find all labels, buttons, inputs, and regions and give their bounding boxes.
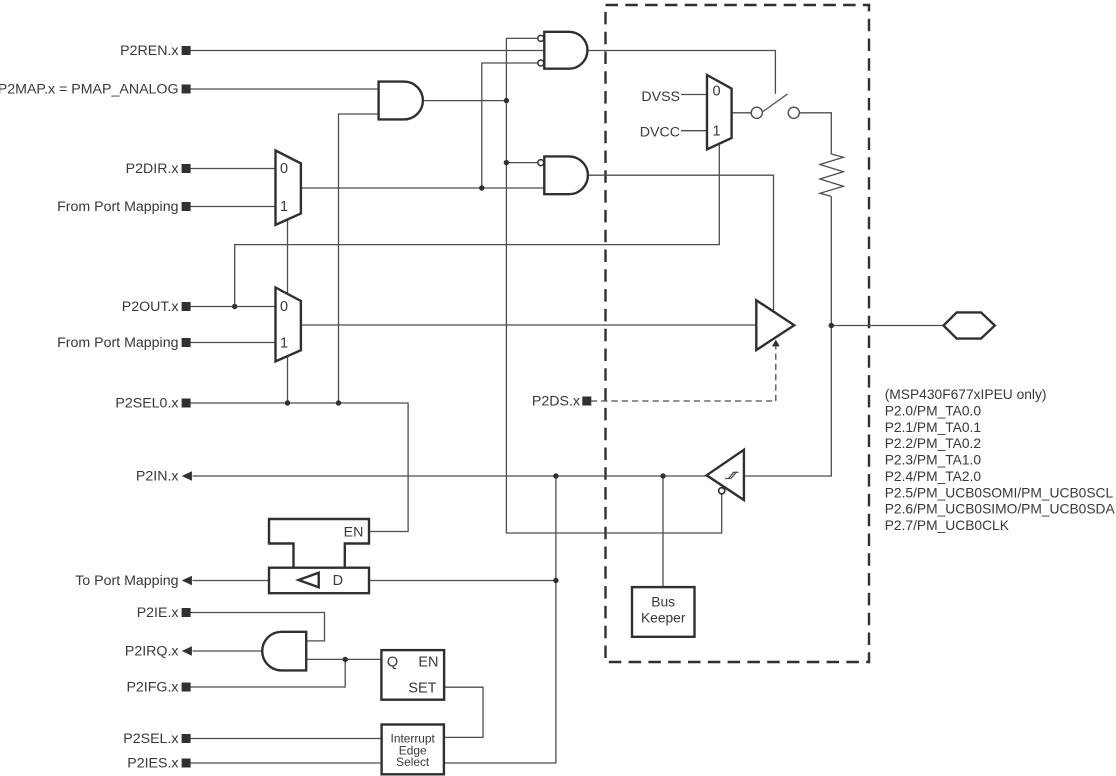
arrow To Port Mapping	[182, 576, 192, 586]
arrowhead P2DS drive strength	[772, 340, 780, 347]
svg-text:P2.4/PM_TA2.0: P2.4/PM_TA2.0	[885, 469, 982, 484]
latch EN yoke	[269, 519, 369, 568]
terminal square P2SEL.x	[182, 734, 191, 743]
Interrupt Edge Select box	[382, 725, 444, 775]
switch contact circle left	[751, 107, 762, 118]
terminal square P2DS.x	[582, 397, 591, 406]
wire pad node to pad hexagon	[831, 325, 944, 327]
wire NAND2 output to output driver enable	[588, 175, 773, 311]
wire P2SEL0 vertical branch to AND U1 bottom input	[339, 114, 378, 403]
svg-text:P2.3/PM_TA1.0: P2.3/PM_TA1.0	[885, 453, 982, 468]
svg-text:DVSS: DVSS	[641, 89, 680, 105]
svg-text:1: 1	[280, 199, 288, 215]
mux M1 (P2DIR / From Port Mapping)	[276, 151, 301, 225]
mux M3 (DVSS / DVCC)	[707, 75, 732, 149]
svg-text:P2IE.x: P2IE.x	[137, 605, 179, 621]
bubble U2 bottom input	[538, 60, 544, 66]
svg-text:0: 0	[280, 161, 288, 177]
switch blade	[763, 94, 788, 112]
svg-text:P2.6/PM_UCB0SIMO/PM_UCB0SDA: P2.6/PM_UCB0SIMO/PM_UCB0SDA	[885, 502, 1116, 517]
junction dot pad input / bus keeper	[660, 473, 665, 478]
junction dot P2SEL0 / AND branch	[336, 400, 341, 405]
svg-text:From Port Mapping: From Port Mapping	[57, 199, 178, 215]
svg-text:P2DS.x: P2DS.x	[532, 394, 580, 410]
wire bus keeper to pad input net	[662, 476, 664, 587]
svg-text:From Port Mapping: From Port Mapping	[57, 335, 178, 351]
wire P2IN.x from Schmitt output	[193, 475, 707, 477]
svg-text:P2SEL.x: P2SEL.x	[123, 731, 178, 747]
svg-text:To Port Mapping: To Port Mapping	[75, 573, 178, 589]
resistor R1 (pullup/pulldown)	[820, 154, 844, 196]
wire P2SEL0.x to latch EN	[191, 403, 409, 532]
terminal square P2REN.x	[182, 46, 191, 55]
junction dot latch D net	[553, 578, 558, 583]
wire mux M1 output (direction) to NAND2 bottom input	[301, 187, 544, 189]
wire P2OUT.x to mux M2 input 0	[191, 306, 276, 308]
svg-text:Keeper: Keeper	[641, 611, 686, 626]
wire P2IRQ.x from IRQ gate output	[193, 650, 263, 652]
svg-text:P2.7/PM_UCB0CLK: P2.7/PM_UCB0CLK	[885, 518, 1010, 533]
svg-text:P2REN.x: P2REN.x	[120, 43, 178, 59]
junction dot pad input / latch net	[553, 473, 558, 478]
arrow P2IRQ.x	[182, 646, 192, 656]
svg-text:DVCC: DVCC	[640, 125, 680, 141]
svg-text:Bus: Bus	[651, 595, 675, 610]
wire select link mux M1 to mux M2	[287, 220, 289, 294]
pin function list text	[885, 387, 1116, 533]
junction dot analog net / NAND2 input	[504, 160, 509, 165]
NAND gate U3 (driver enable)	[544, 156, 588, 194]
wire NAND1 output to pull-resistor switch	[588, 51, 775, 94]
terminal square P2IES.x	[182, 759, 191, 768]
NAND gate U2 (pull enable)	[544, 32, 587, 69]
svg-text:Select: Select	[396, 755, 430, 769]
wire P2IE.x to IRQ gate input	[191, 613, 325, 641]
wire SET loop from flip-flop to Interrupt Edge Select	[444, 687, 483, 737]
output driver buffer	[756, 300, 794, 350]
mux M2 (P2OUT / From Port Mapping)	[276, 288, 301, 362]
wire switch to resistor R1	[799, 113, 831, 154]
terminal square From Port Mapping 2	[182, 338, 191, 347]
wire flag net: IRQ gate input to Q flip-flop	[306, 658, 381, 660]
svg-text:P2.5/PM_UCB0SOMI/PM_UCB0SCL: P2.5/PM_UCB0SOMI/PM_UCB0SCL	[885, 485, 1114, 500]
wire P2OUT branch to DVSS/DVCC mux M3 select	[235, 144, 720, 307]
svg-text:P2SEL0.x: P2SEL0.x	[115, 396, 178, 412]
wire DVSS to mux M3 input 0	[681, 94, 707, 96]
wire DVCC to mux M3 input 1	[681, 130, 707, 132]
svg-text:P2IRQ.x: P2IRQ.x	[125, 644, 179, 660]
wire pad input net vertical to Interrupt Edge Select	[444, 476, 556, 763]
svg-text:D: D	[333, 573, 343, 589]
svg-text:EN: EN	[418, 655, 438, 671]
wire analog-disable vertical: NAND1 top input down to Schmitt enable bubble	[506, 38, 721, 533]
wire From Port Mapping to mux M2 input 1	[191, 342, 276, 344]
wire To Port Mapping from latch D output	[193, 580, 270, 582]
wire P2DS.x dashed to driver strength arrow	[591, 346, 776, 401]
bubble U2 top input	[538, 35, 544, 41]
terminal square P2IFG.x	[182, 683, 191, 692]
wire P2IFG.x branch	[191, 659, 346, 687]
terminal square P2SEL0.x	[182, 399, 191, 408]
latch clock triangle	[299, 573, 319, 588]
AND gate U1 (P2MAP/PMAP_ANALOG)	[379, 82, 423, 120]
svg-text:Q: Q	[387, 655, 398, 671]
bubble U3 top input	[538, 160, 544, 166]
wire mux M3 output to switch contact	[732, 112, 752, 114]
arrow P2IN.x	[182, 471, 192, 481]
svg-text:P2MAP.x = PMAP_ANALOG: P2MAP.x = PMAP_ANALOG	[0, 82, 179, 98]
wire NAND1 bottom input from direction net	[482, 63, 538, 188]
dashed I/O cell boundary box	[606, 5, 870, 662]
wire P2SEL.x to Interrupt Edge Select	[191, 738, 382, 740]
Schmitt trigger input buffer	[707, 450, 744, 500]
latch D box	[269, 568, 369, 594]
pad junction dot	[829, 323, 834, 328]
interrupt flip-flop box Q EN SET	[381, 650, 444, 700]
wire select mux M2 from P2SEL0 net	[287, 356, 289, 403]
svg-text:1: 1	[280, 336, 288, 352]
svg-text:P2.2/PM_TA0.2: P2.2/PM_TA0.2	[885, 436, 981, 451]
svg-text:P2IN.x: P2IN.x	[136, 469, 179, 485]
wire P2REN.x to NAND1 middle input	[191, 50, 545, 52]
svg-text:(MSP430F677xIPEU only): (MSP430F677xIPEU only)	[885, 387, 1047, 402]
pad hexagon	[944, 312, 995, 338]
wire Schmitt input from pad node	[744, 196, 831, 476]
Schmitt hysteresis symbol	[725, 472, 738, 478]
wire mux M2 output to output driver input	[301, 324, 756, 326]
junction dot direction net	[479, 185, 484, 190]
svg-text:P2IFG.x: P2IFG.x	[126, 680, 178, 696]
wire From Port Mapping to mux M1 input 1	[191, 206, 276, 208]
terminal square From Port Mapping 1	[182, 202, 191, 211]
wire P2DIR.x to mux M1 input 0	[191, 168, 276, 170]
terminal square P2DIR.x	[182, 164, 191, 173]
AND gate U4 (IRQ, mirrored)	[262, 632, 306, 671]
junction dot P2SEL0 / mux M2 select	[285, 400, 290, 405]
wire NAND2 top input from analog-disable net	[506, 162, 538, 164]
bubble Schmitt enable	[719, 488, 725, 494]
svg-text:P2OUT.x: P2OUT.x	[122, 299, 179, 315]
svg-text:0: 0	[280, 299, 288, 315]
svg-text:EN: EN	[344, 524, 364, 540]
svg-text:P2DIR.x: P2DIR.x	[126, 161, 179, 177]
junction dot P2IFG net	[343, 657, 348, 662]
terminal square P2MAP.x	[182, 85, 191, 94]
svg-text:1: 1	[712, 124, 720, 140]
wire P2IES.x to Interrupt Edge Select	[191, 762, 382, 764]
svg-text:P2.0/PM_TA0.0: P2.0/PM_TA0.0	[885, 404, 982, 419]
wire AND U1 output to analog-disable net	[424, 100, 506, 102]
junction dot P2OUT branch	[232, 304, 237, 309]
wire latch D input from pad input net	[369, 580, 556, 582]
switch contact circle right	[788, 107, 799, 118]
terminal square P2OUT.x	[182, 302, 191, 311]
svg-text:0: 0	[712, 84, 720, 100]
wire P2MAP.x = PMAP_ANALOG to AND U1 top input	[191, 88, 378, 90]
svg-text:SET: SET	[408, 681, 436, 697]
svg-text:P2IES.x: P2IES.x	[127, 756, 178, 772]
Bus Keeper box	[632, 587, 695, 637]
junction dot analog net / AND output	[504, 98, 509, 103]
svg-text:P2.1/PM_TA0.1: P2.1/PM_TA0.1	[885, 420, 981, 435]
terminal square P2IE.x	[182, 608, 191, 617]
